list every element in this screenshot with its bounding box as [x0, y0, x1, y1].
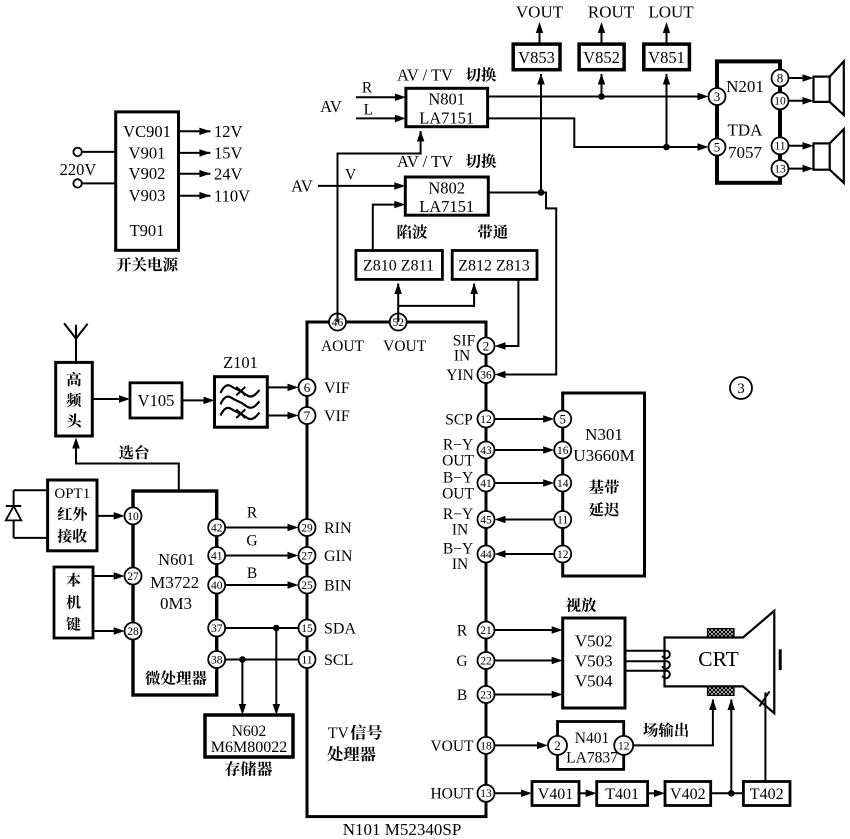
svg-text:23: 23 — [480, 689, 492, 701]
wire pin10 to speaker1 — [789, 100, 810, 102]
pin 25 — [299, 577, 316, 594]
wire G 41 to 27 — [225, 555, 294, 557]
svg-text:21: 21 — [480, 625, 492, 637]
svg-text:Z810 Z811: Z810 Z811 — [363, 258, 434, 275]
svg-text:N602: N602 — [232, 723, 266, 740]
wire junction to yoke — [730, 700, 732, 794]
svg-text:V503: V503 — [575, 652, 613, 671]
wire pin8 to speaker1 — [789, 77, 810, 79]
wire Z101 to pin 6 — [267, 386, 294, 388]
filter Z812 Z813 box — [452, 251, 537, 280]
anode connection slash — [759, 692, 769, 707]
wire R input — [356, 96, 402, 98]
svg-text:N101 M52340SP: N101 M52340SP — [343, 820, 462, 839]
svg-text:Z101: Z101 — [223, 353, 258, 372]
deflection yoke bottom — [708, 686, 735, 695]
junction SDA — [273, 625, 280, 632]
svg-text:B−Y: B−Y — [443, 540, 473, 557]
wire B to video amp — [495, 694, 559, 696]
svg-text:VOUT: VOUT — [383, 338, 427, 355]
svg-text:12V: 12V — [214, 122, 243, 141]
svg-text:N801: N801 — [428, 89, 465, 108]
svg-text:T401: T401 — [605, 786, 639, 803]
svg-text:12: 12 — [618, 740, 630, 752]
wire N801 upper output to pin 3 — [488, 96, 705, 98]
label bandpass — [478, 224, 493, 239]
svg-text:IN: IN — [454, 347, 470, 364]
svg-text:44: 44 — [480, 549, 492, 561]
svg-text:LA7837: LA7837 — [566, 749, 618, 766]
label switching power supply — [116, 257, 131, 271]
svg-text:N601: N601 — [158, 550, 195, 569]
filter Z101 box — [215, 377, 268, 428]
svg-text:OUT: OUT — [442, 485, 474, 502]
pin 40 — [208, 577, 225, 594]
svg-text:V902: V902 — [129, 164, 166, 183]
junction V853 feed — [538, 189, 545, 196]
junction yoke feed — [728, 790, 735, 797]
svg-text:LOUT: LOUT — [648, 2, 694, 21]
wire R-Y OUT to pin16 — [495, 449, 551, 451]
svg-text:5: 5 — [559, 411, 566, 426]
TV signal processor N101 box — [307, 322, 486, 817]
svg-text:V901: V901 — [129, 143, 166, 162]
svg-text:43: 43 — [480, 445, 492, 457]
svg-text:3: 3 — [737, 381, 745, 397]
amplifier V105 box — [130, 383, 182, 418]
wire pin11 to R-Y IN — [499, 519, 555, 521]
svg-text:V502: V502 — [575, 632, 613, 651]
svg-text:V504: V504 — [575, 672, 613, 691]
wire cathode B coil — [625, 670, 668, 672]
page marker 3 — [730, 377, 752, 399]
pin 28 — [125, 623, 142, 640]
pin 23 — [478, 686, 495, 703]
svg-text:YIN: YIN — [446, 367, 474, 384]
svg-text:V853: V853 — [518, 48, 555, 67]
svg-text:3: 3 — [714, 89, 721, 104]
speaker BL1 — [814, 77, 830, 102]
svg-text:VIF: VIF — [324, 408, 350, 425]
svg-text:36: 36 — [480, 369, 492, 381]
wire G to video amp — [495, 660, 559, 662]
pin 43 — [478, 442, 495, 459]
svg-text:R: R — [457, 622, 468, 639]
wire pin12 to B-Y IN — [499, 553, 555, 555]
svg-text:VIF: VIF — [324, 380, 350, 397]
local keys block — [54, 567, 93, 638]
wire SCP to pin5 — [495, 418, 551, 420]
svg-text:38: 38 — [211, 654, 223, 666]
svg-text:27: 27 — [301, 550, 313, 562]
svg-text:LA7151: LA7151 — [419, 108, 474, 127]
junction V852 feed — [598, 93, 605, 100]
wire junction to V853 — [540, 74, 542, 193]
svg-text:IN: IN — [452, 521, 468, 538]
svg-text:15: 15 — [301, 623, 313, 635]
svg-text:GIN: GIN — [324, 548, 353, 565]
wire 12V output — [179, 130, 211, 132]
svg-text:TDA: TDA — [728, 120, 764, 139]
pin 22 — [478, 652, 495, 669]
svg-text:G: G — [456, 653, 467, 670]
pin 37 — [208, 620, 225, 637]
wire T402 anode — [764, 692, 766, 781]
svg-text:V: V — [345, 167, 357, 184]
wire SCL to N602 — [241, 660, 243, 712]
wire junction to V851 — [666, 74, 668, 147]
svg-text:L: L — [364, 101, 373, 118]
pin 21 — [478, 622, 495, 639]
wire R to video amp — [495, 629, 559, 631]
svg-text:IN: IN — [452, 556, 468, 573]
wire 110V output — [179, 195, 211, 197]
label notch — [398, 224, 412, 239]
svg-text:14: 14 — [557, 478, 569, 490]
svg-text:42: 42 — [211, 522, 223, 534]
svg-text:G: G — [246, 532, 257, 549]
wire channel select N601 to tuner — [76, 440, 179, 491]
svg-text:ROUT: ROUT — [588, 2, 635, 21]
svg-text:M6M80022: M6M80022 — [211, 739, 287, 756]
pin 12 (N101) — [478, 411, 495, 428]
wire B 40 to 25 — [225, 584, 294, 586]
wire keys to pin 27 — [93, 575, 121, 577]
svg-text:5: 5 — [714, 139, 721, 154]
svg-text:41: 41 — [480, 478, 492, 490]
svg-text:29: 29 — [301, 522, 313, 534]
terminal 220V line 1 — [73, 148, 81, 156]
svg-text:13: 13 — [774, 164, 786, 176]
CRT screen — [779, 649, 782, 670]
svg-text:V851: V851 — [648, 48, 685, 67]
audio amplifier N201 box — [717, 61, 780, 182]
svg-text:24V: 24V — [214, 165, 243, 184]
wire 15V output — [179, 152, 211, 154]
svg-text:V903: V903 — [129, 186, 166, 205]
svg-text:6: 6 — [304, 380, 311, 395]
pin 27 (N601) — [125, 568, 142, 585]
wire OPT1 to pin 10 — [97, 515, 121, 517]
deflection yoke top — [708, 629, 735, 638]
pin 5 (N301) — [554, 411, 571, 428]
picture tube CRT — [665, 611, 775, 713]
svg-text:AV / TV: AV / TV — [397, 65, 453, 84]
svg-text:2: 2 — [554, 738, 561, 753]
wire tuner to V105 — [92, 398, 126, 400]
memory N602 box — [205, 715, 293, 757]
pin 12 (N401) — [614, 736, 633, 755]
svg-text:V105: V105 — [138, 391, 175, 410]
svg-text:10: 10 — [127, 511, 139, 523]
label field output — [643, 723, 658, 737]
svg-text:SDA: SDA — [324, 621, 356, 638]
svg-text:8: 8 — [777, 70, 784, 85]
svg-text:V401: V401 — [538, 786, 574, 803]
wire SCL 38 to 11 — [225, 659, 298, 661]
terminal 220V line 2 — [73, 179, 81, 187]
pin 5 — [709, 139, 726, 156]
flyback T402 box — [743, 782, 790, 806]
pin 13 (N201) — [772, 160, 789, 177]
svg-text:VOUT: VOUT — [516, 2, 564, 21]
svg-text:CRT: CRT — [698, 647, 739, 671]
pin 11 (N201) — [772, 137, 789, 154]
pin 27 (N101) — [299, 547, 316, 564]
amplifier V851 box — [644, 44, 690, 70]
svg-text:VOUT: VOUT — [430, 738, 474, 755]
pin 16 — [554, 442, 571, 459]
svg-text:AV: AV — [320, 97, 342, 116]
svg-text:2: 2 — [483, 338, 490, 353]
pin 13 (N101) — [478, 785, 495, 802]
svg-text:BIN: BIN — [324, 578, 352, 595]
svg-text:11: 11 — [301, 654, 312, 666]
video switch N802 box — [405, 177, 488, 215]
wire SDA to N602 — [275, 628, 277, 711]
wire V402 to T402 — [711, 792, 744, 794]
pin 3 — [709, 88, 726, 105]
pin 44 — [478, 546, 495, 563]
svg-text:11: 11 — [557, 514, 568, 526]
pin 6 — [299, 379, 316, 396]
wire AV video input — [318, 185, 402, 187]
pin 11 (N101) — [299, 651, 316, 668]
svg-text:15V: 15V — [214, 144, 243, 163]
svg-text:7057: 7057 — [728, 143, 763, 162]
pin 38 — [208, 651, 225, 668]
wire L input — [356, 117, 402, 119]
wire 24V output — [179, 173, 211, 175]
wire N401 to yoke — [633, 700, 713, 746]
svg-text:28: 28 — [127, 626, 139, 638]
pin 14 — [554, 475, 571, 492]
wire V105 to Z101 — [182, 399, 211, 401]
wire SDA 37 to 15 — [225, 627, 298, 629]
tuner block (RF head) — [56, 362, 93, 436]
svg-text:R: R — [247, 504, 258, 521]
svg-text:22: 22 — [480, 655, 492, 667]
svg-text:220V: 220V — [60, 160, 97, 179]
label video amp — [566, 598, 581, 612]
svg-text:7: 7 — [304, 408, 311, 423]
pin 2 (N101) — [478, 338, 495, 355]
pin 7 — [299, 407, 316, 424]
amplifier V852 box — [579, 44, 624, 70]
pin 36 — [478, 366, 495, 383]
wire pin11 to speaker2 — [789, 145, 810, 147]
svg-text:27: 27 — [127, 571, 139, 583]
svg-text:37: 37 — [211, 623, 223, 635]
svg-text:N802: N802 — [428, 178, 465, 197]
svg-text:R: R — [362, 80, 373, 97]
pin 8 — [772, 70, 789, 87]
transformer T401 box — [597, 782, 648, 806]
svg-text:12: 12 — [557, 549, 569, 561]
pin 29 — [299, 519, 316, 536]
wire Z101 to pin 7 — [267, 415, 294, 417]
svg-text:25: 25 — [301, 580, 313, 592]
junction SCL — [239, 656, 246, 663]
output V402 box — [665, 782, 711, 806]
svg-text:SCL: SCL — [324, 652, 353, 669]
junction V851 feed — [663, 144, 670, 151]
pin 10 — [125, 507, 142, 524]
svg-text:T901: T901 — [130, 221, 165, 240]
pin 15 — [299, 620, 316, 637]
photodiode VD — [13, 490, 15, 506]
svg-text:13: 13 — [480, 788, 492, 800]
svg-text:U3660M: U3660M — [573, 446, 634, 465]
svg-text:40: 40 — [211, 580, 223, 592]
filter Z101 wave symbol — [221, 385, 260, 396]
power supply T901 box — [116, 112, 179, 250]
wire VOUT18 to N401 — [495, 744, 545, 746]
label memory — [225, 761, 240, 776]
IR receiver OPT1 box — [48, 480, 97, 551]
svg-text:0M3: 0M3 — [160, 594, 192, 613]
svg-text:TV: TV — [328, 725, 349, 742]
baseband delay N301 box — [563, 393, 645, 576]
wire T401 to V402 — [648, 792, 661, 794]
wire HOUT to V401 — [495, 792, 529, 794]
wire N802 output to YIN — [488, 193, 556, 375]
svg-text:B−Y: B−Y — [443, 469, 473, 486]
wire V852 to ROUT — [601, 26, 603, 44]
audio switch N801 box — [406, 88, 488, 126]
wire V401 to T401 — [579, 792, 593, 794]
svg-text:R−Y: R−Y — [443, 436, 473, 453]
wire cathode G coil — [625, 660, 668, 662]
pin 11 (N301) — [554, 511, 571, 528]
svg-text:AV: AV — [291, 177, 313, 196]
svg-text:45: 45 — [480, 514, 492, 526]
pin 18 — [478, 737, 495, 754]
wire N801 lower output to pin 5 — [488, 118, 705, 147]
svg-text:N301: N301 — [585, 425, 623, 444]
antenna — [75, 339, 77, 363]
svg-text:N401: N401 — [575, 730, 609, 747]
wire keys to pin 28 — [93, 630, 121, 632]
wire pin13 to speaker2 — [789, 168, 810, 170]
svg-text:B: B — [457, 687, 467, 704]
svg-text:M3722: M3722 — [150, 573, 199, 592]
wire junction to V852 — [601, 74, 603, 97]
filter Z810 Z811 box — [356, 251, 443, 280]
svg-text:AV / TV: AV / TV — [397, 152, 453, 171]
svg-text:SCP: SCP — [445, 411, 473, 428]
svg-text:T402: T402 — [750, 786, 784, 803]
wire AOUT to N801 — [338, 131, 421, 322]
wire V851 to LOUT — [666, 26, 668, 44]
svg-text:OPT1: OPT1 — [54, 486, 90, 502]
wire V853 to VOUT — [539, 26, 541, 44]
svg-text:LA7151: LA7151 — [419, 197, 474, 216]
wire diode loop — [14, 489, 48, 491]
svg-text:16: 16 — [557, 445, 569, 457]
svg-text:18: 18 — [480, 740, 492, 752]
wire VOUT52 to filters — [397, 306, 399, 322]
svg-text:OUT: OUT — [442, 452, 474, 469]
svg-text:Z812 Z813: Z812 Z813 — [458, 258, 530, 275]
wire B-Y OUT to pin14 — [495, 482, 551, 484]
pin 52 — [390, 314, 407, 331]
svg-text:11: 11 — [774, 141, 785, 153]
svg-text:110V: 110V — [214, 187, 250, 206]
label channel-select — [119, 445, 134, 459]
svg-text:12: 12 — [480, 414, 492, 426]
speaker BL2 — [814, 143, 830, 169]
amplifier V853 box — [513, 44, 560, 70]
wire Z810 to N802 — [373, 205, 402, 251]
svg-text:41: 41 — [211, 550, 223, 562]
svg-text:AOUT: AOUT — [321, 338, 365, 355]
wire R 42 to 29 — [225, 527, 294, 529]
pin 10 (N201) — [772, 92, 789, 109]
svg-text:RIN: RIN — [324, 520, 352, 537]
svg-text:VC901: VC901 — [123, 122, 171, 141]
svg-text:R−Y: R−Y — [443, 506, 473, 523]
pin 41 (N101) — [478, 475, 495, 492]
driver V401 box — [532, 782, 579, 806]
pin 42 — [208, 519, 225, 536]
svg-text:10: 10 — [774, 96, 786, 108]
pin 46 — [329, 314, 346, 331]
svg-text:N201: N201 — [726, 77, 764, 96]
pin 2 (N401) — [548, 736, 567, 755]
svg-text:V402: V402 — [670, 786, 706, 803]
svg-text:V852: V852 — [583, 48, 620, 67]
svg-text:B: B — [247, 565, 257, 582]
video amplifier V502 V503 V504 box — [563, 618, 625, 708]
pin 12 (N301) — [554, 546, 571, 563]
pin 45 — [478, 511, 495, 528]
wire Z813 to SIF IN — [499, 279, 519, 346]
field output N401 box — [558, 722, 624, 770]
pin 41 (N601) — [208, 547, 225, 564]
microprocessor N601 box — [133, 491, 217, 695]
svg-text:HOUT: HOUT — [430, 786, 474, 803]
wire cathode R coil — [625, 650, 668, 652]
